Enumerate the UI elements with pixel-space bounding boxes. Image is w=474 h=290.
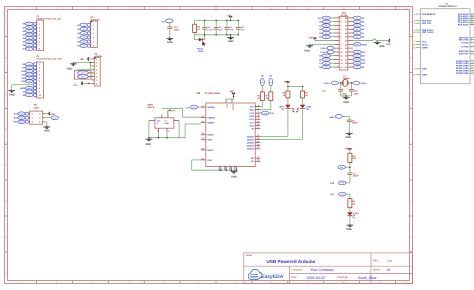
svg-text:4: 4 xyxy=(340,28,342,31)
svg-text:E: E xyxy=(410,164,412,167)
svg-text:10: 10 xyxy=(340,51,342,54)
svg-text:27: 27 xyxy=(345,21,347,24)
power flag +7V at USB VCC xyxy=(168,109,170,111)
svg-text:22: 22 xyxy=(413,73,415,76)
svg-text:Header-Female 4.04_1x10: Header-Female 4.04_1x10 xyxy=(37,58,63,61)
svg-text:25: 25 xyxy=(345,28,347,31)
svg-text:16MHz: 16MHz xyxy=(343,77,350,80)
svg-text:7: 7 xyxy=(96,79,98,82)
svg-text:A: A xyxy=(410,21,412,24)
svg-text:D11: D11 xyxy=(362,58,366,61)
svg-text:10K: 10K xyxy=(353,157,357,160)
svg-text:D: D xyxy=(410,128,412,131)
svg-text:AREF: AREF xyxy=(20,87,26,90)
svg-text:XTAL1: XTAL1 xyxy=(320,47,327,50)
svg-text:GND: GND xyxy=(346,228,352,231)
power flag +5V at U2 VCC xyxy=(226,98,234,100)
power flag +5V at P4 pin1 xyxy=(89,58,92,60)
svg-text:11: 11 xyxy=(340,55,342,58)
svg-text:NC: NC xyxy=(251,157,255,160)
svg-text:D13: D13 xyxy=(362,51,367,54)
svg-text:3V3: 3V3 xyxy=(186,107,190,110)
svg-text:DTR: DTR xyxy=(250,112,255,115)
svg-text:3: 3 xyxy=(258,117,259,120)
svg-text:1: 1 xyxy=(39,23,41,26)
svg-text:VCC: VCC xyxy=(157,119,162,122)
svg-text:10: 10 xyxy=(257,123,259,126)
svg-text:20: 20 xyxy=(345,47,347,50)
power flag +5V at ICSP pin2 xyxy=(44,113,48,115)
svg-text:B: B xyxy=(5,56,7,59)
svg-text:P1: P1 xyxy=(37,15,40,18)
svg-text:6: 6 xyxy=(168,129,169,132)
svg-text:100nF: 100nF xyxy=(353,175,360,178)
ground at U2 GND pins xyxy=(236,169,238,171)
svg-text:22pF: 22pF xyxy=(342,92,347,95)
svg-text:B: B xyxy=(410,56,412,59)
svg-text:+5V: +5V xyxy=(284,80,289,83)
svg-text:U2: U2 xyxy=(197,91,201,95)
title block xyxy=(244,253,413,284)
ground below C9 xyxy=(348,132,350,133)
svg-text:28: 28 xyxy=(202,147,204,150)
svg-text:DSR: DSR xyxy=(249,115,254,118)
svg-text:3: 3 xyxy=(39,30,41,33)
svg-text:Company:: Company: xyxy=(291,269,303,272)
svg-text:7: 7 xyxy=(414,40,415,43)
svg-text:DCD: DCD xyxy=(249,124,254,127)
svg-text:9: 9 xyxy=(39,90,41,93)
svg-text:4: 4 xyxy=(39,73,41,76)
net flag AREF at SK1 pin21 xyxy=(353,43,361,46)
wire P2 pin7 to ground xyxy=(12,84,34,86)
svg-text:LED4: LED4 xyxy=(198,50,204,53)
resistor R5 1K xyxy=(302,86,304,91)
svg-text:G: G xyxy=(5,236,7,239)
svg-text:3V3: 3V3 xyxy=(81,72,84,75)
ground right of SK1 xyxy=(376,41,378,42)
svg-text:13: 13 xyxy=(257,140,259,143)
svg-text:GND: GND xyxy=(345,136,351,139)
svg-text:XTAL2: XTAL2 xyxy=(320,51,327,54)
wire R7 to U2 RXD xyxy=(270,101,272,110)
svg-text:5: 5 xyxy=(340,32,341,35)
svg-text:P5: P5 xyxy=(34,104,37,107)
svg-text:USBDM: USBDM xyxy=(207,116,215,119)
power flag +7V at P4 pin8 xyxy=(81,82,92,84)
svg-text:4: 4 xyxy=(93,36,95,39)
svg-text:F: F xyxy=(5,200,7,203)
svg-text:+5V: +5V xyxy=(345,147,350,150)
power flag +7V on rail xyxy=(230,18,232,21)
capacitor C6 1uF xyxy=(215,20,217,27)
svg-text:13: 13 xyxy=(340,62,342,65)
svg-text:OSCI: OSCI xyxy=(207,139,213,142)
wire CBUS1 to LED3 xyxy=(260,139,302,141)
svg-text:P3: P3 xyxy=(91,16,94,19)
svg-text:P2: P2 xyxy=(37,55,40,58)
wire P4 junction down xyxy=(89,62,91,69)
capacitor C4 100nF xyxy=(347,172,352,174)
svg-text:6: 6 xyxy=(471,41,472,44)
svg-text:7: 7 xyxy=(340,39,341,42)
svg-text:FT232RL REEL: FT232RL REEL xyxy=(205,92,221,95)
svg-text:GND: GND xyxy=(228,40,234,43)
net flag XTAL2 at crystal xyxy=(348,82,353,84)
svg-text:OSCO: OSCO xyxy=(207,149,214,152)
net flag RST xyxy=(338,165,345,169)
resistor R4 1K xyxy=(287,86,289,91)
svg-text:C11: C11 xyxy=(322,90,326,93)
svg-text:23: 23 xyxy=(257,134,259,137)
svg-text:5: 5 xyxy=(39,37,41,40)
svg-text:RX: RX xyxy=(306,108,309,111)
svg-text:VCCIO: VCCIO xyxy=(232,104,235,111)
svg-text:11: 11 xyxy=(257,120,259,123)
net flags 3V3 / RST at P4 pins 5-6 xyxy=(75,71,92,80)
svg-text:1uF: 1uF xyxy=(230,28,234,31)
svg-text:CBUS3: CBUS3 xyxy=(247,145,255,148)
svg-text:C: C xyxy=(5,92,7,95)
svg-text:Date:: Date: xyxy=(291,276,297,279)
svg-text:23: 23 xyxy=(345,36,347,39)
svg-text:9: 9 xyxy=(258,114,259,117)
svg-text:1uF: 1uF xyxy=(219,28,223,31)
svg-text:CBUS2: CBUS2 xyxy=(247,142,255,145)
svg-text:GND: GND xyxy=(304,49,310,52)
svg-text:1: 1 xyxy=(93,24,95,27)
svg-text:2: 2 xyxy=(39,113,41,116)
svg-text:PCINT5 PB5: PCINT5 PB5 xyxy=(456,72,469,75)
power flag +5V at TX/RX LEDs xyxy=(286,82,290,83)
svg-text:CBUS4: CBUS4 xyxy=(247,148,255,151)
svg-text:ICSP: ICSP xyxy=(34,106,39,109)
svg-text:LED2: LED2 xyxy=(279,106,285,109)
svg-text:5: 5 xyxy=(158,129,159,132)
svg-text:D11: D11 xyxy=(53,116,56,119)
svg-text:C12: C12 xyxy=(354,90,359,93)
svg-text:D10: D10 xyxy=(362,62,367,65)
svg-text:6: 6 xyxy=(258,126,259,129)
svg-text:RXD: RXD xyxy=(249,109,254,112)
svg-text:3: 3 xyxy=(39,70,41,73)
svg-text:GND: GND xyxy=(167,41,173,44)
svg-text:XTAL1: XTAL1 xyxy=(324,82,331,85)
svg-text:6: 6 xyxy=(39,41,41,44)
capacitor C11 22pF xyxy=(340,83,342,89)
svg-text:RESET: RESET xyxy=(207,134,215,137)
svg-text:NC: NC xyxy=(251,160,255,163)
svg-text:11: 11 xyxy=(471,45,473,48)
svg-text:24: 24 xyxy=(345,32,348,35)
svg-text:1: 1 xyxy=(32,113,34,116)
svg-text:19: 19 xyxy=(345,51,347,54)
svg-text:1: 1 xyxy=(39,63,41,66)
svg-text:E: E xyxy=(5,164,7,167)
svg-text:RST: RST xyxy=(318,17,323,20)
wire crystal caps to ground xyxy=(341,95,352,97)
wire CBUS0 to LED2 xyxy=(260,135,288,137)
svg-text:RI: RI xyxy=(252,128,255,131)
LED LED3 RX xyxy=(300,105,305,108)
capacitor C7 1uF xyxy=(226,20,228,27)
svg-text:CBUS1: CBUS1 xyxy=(247,138,255,141)
svg-text:+7V: +7V xyxy=(73,84,78,87)
svg-text:2: 2 xyxy=(39,26,41,29)
svg-text:19: 19 xyxy=(202,132,204,135)
svg-text:P4: P4 xyxy=(94,52,97,55)
wire USB D+ upper route xyxy=(162,107,183,109)
capacitor C8 1uF xyxy=(237,20,239,27)
svg-text:PC6 RESET#: PC6 RESET# xyxy=(422,13,436,16)
svg-text:+5V: +5V xyxy=(308,37,313,40)
svg-text:2: 2 xyxy=(93,28,95,31)
wire P4 pin2 to ground xyxy=(73,61,91,63)
ground at SK1 pin8 xyxy=(309,44,311,45)
svg-text:6: 6 xyxy=(96,75,98,78)
svg-text:5: 5 xyxy=(39,77,41,80)
svg-text:Sheet:: Sheet: xyxy=(373,269,381,272)
svg-text:10: 10 xyxy=(413,31,415,34)
svg-text:TXD: TXD xyxy=(250,106,255,109)
wire USB D- lower route xyxy=(148,120,150,137)
svg-text:6: 6 xyxy=(39,80,41,83)
svg-text:GND: GND xyxy=(379,45,385,48)
svg-text:VCC: VCC xyxy=(422,40,427,43)
svg-text:G: G xyxy=(410,236,412,239)
svg-text:Your Company: Your Company xyxy=(310,268,334,272)
svg-text:1K: 1K xyxy=(266,97,269,100)
svg-text:AVCC: AVCC xyxy=(422,43,428,46)
svg-text:8: 8 xyxy=(96,82,98,85)
ground at USB shell xyxy=(148,138,150,139)
crystal Y1 16MHz xyxy=(343,79,347,86)
svg-text:South_Bear: South_Bear xyxy=(358,276,378,280)
svg-text:PC5 ADC5: PC5 ADC5 xyxy=(458,23,470,26)
svg-text:12: 12 xyxy=(257,146,259,149)
svg-text:TEST: TEST xyxy=(207,159,213,162)
svg-text:C: C xyxy=(410,92,412,95)
wire R6 to U2 TXD xyxy=(261,101,263,107)
capacitor C12 22pF xyxy=(351,83,353,89)
svg-text:ATMEGA328P-PU: ATMEGA328P-PU xyxy=(438,5,457,8)
svg-text:1uF: 1uF xyxy=(241,28,245,31)
svg-text:USB Powered Arduino: USB Powered Arduino xyxy=(267,259,316,264)
svg-text:GND: GND xyxy=(422,68,427,71)
svg-text:T0 PD4: T0 PD4 xyxy=(461,41,469,44)
net flag DTR at U2 pin2 xyxy=(260,112,261,114)
svg-text:D12: D12 xyxy=(362,55,367,58)
svg-text:D-: D- xyxy=(157,122,159,125)
svg-text:22pF: 22pF xyxy=(354,92,359,95)
svg-text:D1: D1 xyxy=(270,74,273,77)
svg-text:GND: GND xyxy=(44,130,50,133)
power flag +5V at SK1 pin7 xyxy=(314,39,316,40)
svg-text:3: 3 xyxy=(96,65,98,68)
svg-text:2020-04-02: 2020-04-02 xyxy=(307,276,325,280)
svg-text:9: 9 xyxy=(340,47,341,50)
svg-text:D: D xyxy=(5,128,7,131)
svg-text:17: 17 xyxy=(202,105,204,108)
svg-text:19: 19 xyxy=(471,72,473,75)
svg-text:F: F xyxy=(410,200,412,203)
svg-text:1K: 1K xyxy=(305,94,308,97)
svg-text:A1: A1 xyxy=(362,32,365,35)
svg-text:XTAL2: XTAL2 xyxy=(360,82,367,85)
svg-text:5: 5 xyxy=(471,39,472,42)
svg-text:3: 3 xyxy=(340,24,341,27)
svg-text:16: 16 xyxy=(202,115,204,118)
svg-text:VCC: VCC xyxy=(226,104,229,109)
svg-text:7V: 7V xyxy=(162,20,165,23)
svg-text:1: 1 xyxy=(96,58,98,61)
net flag DTR xyxy=(346,182,350,184)
svg-text:AREF: AREF xyxy=(422,47,429,50)
svg-text:10: 10 xyxy=(39,94,42,97)
ground below crystal xyxy=(345,96,347,97)
svg-text:D+: D+ xyxy=(165,119,168,122)
svg-text:13: 13 xyxy=(471,53,473,56)
svg-text:PD1 TXD: PD1 TXD xyxy=(422,22,432,25)
svg-text:REV:: REV: xyxy=(373,260,379,263)
svg-text:22: 22 xyxy=(257,137,259,140)
svg-text:A4: A4 xyxy=(362,21,365,24)
ground at P2 pin7 xyxy=(11,89,13,90)
svg-text:28: 28 xyxy=(345,17,347,20)
svg-text:15: 15 xyxy=(345,66,347,69)
resistor R1 10K xyxy=(348,153,352,162)
LED LED2 TX xyxy=(285,105,290,108)
svg-text:28: 28 xyxy=(471,23,473,26)
svg-text:AREF: AREF xyxy=(329,116,335,119)
EasyEDA logo xyxy=(248,269,262,279)
wire ICSP pin6 to ground xyxy=(44,121,46,123)
svg-text:A3: A3 xyxy=(362,24,365,27)
svg-text:18: 18 xyxy=(345,55,347,58)
svg-text:26: 26 xyxy=(202,157,204,160)
svg-text:27: 27 xyxy=(202,137,204,140)
svg-text:4: 4 xyxy=(96,68,98,71)
net flag D11 at ICSP pin4 xyxy=(44,117,51,119)
svg-text:2: 2 xyxy=(96,61,98,64)
svg-text:USBDP: USBDP xyxy=(207,121,215,124)
svg-text:6: 6 xyxy=(340,36,341,39)
svg-text:8: 8 xyxy=(39,87,41,90)
svg-text:TX: TX xyxy=(281,108,284,111)
svg-text:GND: GND xyxy=(231,175,237,178)
svg-text:5: 5 xyxy=(93,40,95,43)
svg-text:1: 1 xyxy=(340,17,341,20)
ground on power rail xyxy=(230,35,232,36)
svg-text:+5V: +5V xyxy=(386,43,391,46)
svg-text:+7V: +7V xyxy=(171,109,176,112)
svg-text:8: 8 xyxy=(258,156,259,159)
svg-text:+7V: +7V xyxy=(227,14,232,17)
svg-text:EasyEDA: EasyEDA xyxy=(261,274,284,280)
svg-text:A5: A5 xyxy=(362,17,365,20)
svg-text:PB7 XTAL2: PB7 XTAL2 xyxy=(422,31,434,34)
svg-text:1K: 1K xyxy=(197,28,200,31)
svg-text:3V3OUT: 3V3OUT xyxy=(207,106,216,109)
svg-text:14: 14 xyxy=(340,66,343,69)
svg-text:T1 PD5: T1 PD5 xyxy=(461,46,469,49)
svg-text:1K: 1K xyxy=(283,94,286,97)
resistor R9 1K xyxy=(194,20,196,24)
svg-text:1/1: 1/1 xyxy=(386,268,391,272)
svg-text:GND: GND xyxy=(145,143,151,146)
svg-text:A2: A2 xyxy=(362,28,365,31)
svg-text:GND: GND xyxy=(343,101,349,104)
svg-text:USB_B: USB_B xyxy=(147,106,155,109)
wire USB shield stubs xyxy=(157,132,159,138)
svg-text:26: 26 xyxy=(345,24,347,27)
svg-text:GND: GND xyxy=(234,165,237,170)
svg-text:1K: 1K xyxy=(353,203,356,206)
svg-text:GND: GND xyxy=(165,122,170,125)
svg-text:6: 6 xyxy=(39,121,41,124)
svg-text:17: 17 xyxy=(345,58,347,61)
svg-text:8: 8 xyxy=(340,43,341,46)
svg-text:3: 3 xyxy=(414,22,415,25)
svg-text:1K: 1K xyxy=(257,97,260,100)
ground at ICSP pin6 xyxy=(46,126,48,127)
mouse cursor xyxy=(202,41,205,46)
svg-text:DTR: DTR xyxy=(330,182,335,185)
svg-text:A0: A0 xyxy=(362,36,365,39)
svg-text:4: 4 xyxy=(39,117,41,120)
svg-text:15: 15 xyxy=(202,120,204,123)
svg-text:21: 21 xyxy=(413,46,415,49)
svg-text:5: 5 xyxy=(96,72,98,75)
svg-text:+5V: +5V xyxy=(229,90,234,93)
net flags SK1 right pins xyxy=(353,16,361,19)
svg-text:3: 3 xyxy=(93,32,95,35)
svg-text:USB1: USB1 xyxy=(147,103,154,106)
svg-text:22: 22 xyxy=(345,39,347,42)
svg-text:7: 7 xyxy=(39,44,41,47)
svg-text:DTR: DTR xyxy=(270,112,275,115)
svg-text:D0: D0 xyxy=(261,74,264,77)
svg-text:21: 21 xyxy=(345,43,347,46)
svg-text:12: 12 xyxy=(340,58,342,61)
power flag +5V right of SK1 xyxy=(388,39,389,43)
svg-text:7: 7 xyxy=(39,84,41,87)
svg-text:GND: GND xyxy=(67,68,73,71)
svg-text:+5V: +5V xyxy=(80,58,85,61)
LED4 power LED xyxy=(195,39,199,41)
capacitor C9 100nF xyxy=(348,116,350,120)
svg-text:GND: GND xyxy=(422,74,427,77)
svg-text:1.0: 1.0 xyxy=(388,259,393,263)
svg-text:U1: U1 xyxy=(446,3,450,6)
svg-text:2: 2 xyxy=(340,21,341,24)
svg-text:H: H xyxy=(5,272,7,275)
svg-text:TITLE:: TITLE: xyxy=(246,254,253,257)
svg-text:1: 1 xyxy=(414,13,415,16)
svg-text:GND: GND xyxy=(229,165,232,170)
svg-text:D13: D13 xyxy=(331,193,336,196)
wire +7V power rails xyxy=(195,19,239,21)
svg-text:100nF: 100nF xyxy=(174,29,181,32)
ground at P4 pin2 xyxy=(72,62,74,63)
svg-text:A: A xyxy=(5,21,7,24)
svg-text:Drawn By:: Drawn By: xyxy=(337,276,349,279)
svg-text:GND: GND xyxy=(9,93,15,96)
svg-text:D9: D9 xyxy=(362,66,365,69)
svg-text:LED3: LED3 xyxy=(306,106,312,109)
svg-text:2: 2 xyxy=(39,67,41,70)
ground below LED1 xyxy=(349,224,351,225)
